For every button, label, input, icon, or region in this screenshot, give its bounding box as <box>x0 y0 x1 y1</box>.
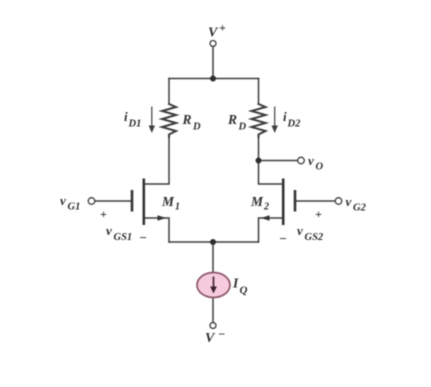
node V+ terminal <box>210 41 216 47</box>
svg-text:i: i <box>283 109 287 124</box>
svg-text:M: M <box>161 194 175 209</box>
wire gate M1 <box>95 200 132 202</box>
resistor RD right <box>252 104 266 137</box>
svg-text:−: − <box>279 231 287 246</box>
svg-text:D: D <box>192 122 201 133</box>
svg-text:GS2: GS2 <box>305 232 324 243</box>
svg-text:+: + <box>100 207 107 221</box>
node vG2 terminal <box>335 198 342 205</box>
svg-text:+: + <box>219 21 226 35</box>
svg-text:G1: G1 <box>68 202 81 213</box>
wire node vO to M2 drain <box>259 161 284 185</box>
svg-text:G2: G2 <box>353 203 367 214</box>
transistor M2 <box>283 179 295 226</box>
svg-text:2: 2 <box>263 202 269 213</box>
wire V+ to top rail <box>212 47 214 79</box>
current arrow iD2 <box>272 107 278 134</box>
svg-text:v: v <box>297 223 303 238</box>
svg-text:i: i <box>124 109 128 124</box>
junction dot node vO <box>256 158 262 164</box>
wire current source to V- terminal <box>212 297 214 323</box>
svg-text:D2: D2 <box>287 119 302 130</box>
current arrow iD1 <box>149 107 155 134</box>
wire node vO to output terminal <box>259 160 298 162</box>
svg-text:D: D <box>238 122 247 133</box>
wire M1 source to common node <box>144 218 169 242</box>
svg-text:V: V <box>208 26 219 41</box>
wire resistor to node vO <box>258 137 260 161</box>
svg-text:Q: Q <box>240 285 248 297</box>
transistor M1 <box>132 179 144 226</box>
wire top rail <box>169 78 259 80</box>
svg-text:v: v <box>308 153 314 168</box>
svg-text:1: 1 <box>175 202 180 213</box>
svg-text:GS1: GS1 <box>114 232 133 243</box>
resistor RD left <box>162 104 176 137</box>
svg-text:O: O <box>316 162 324 173</box>
arrow M2 source <box>261 215 270 220</box>
wire gate M2 <box>295 200 335 202</box>
node V- terminal <box>210 323 216 329</box>
svg-text:R: R <box>182 112 192 127</box>
svg-text:v: v <box>60 193 66 208</box>
wire M2 source to common node <box>259 218 284 242</box>
arrow M1 source <box>158 215 167 220</box>
junction dot top rail <box>210 76 216 82</box>
svg-text:+: + <box>315 207 322 221</box>
wire right branch to resistor <box>258 79 260 105</box>
svg-text:M: M <box>250 194 264 209</box>
svg-text:v: v <box>106 223 112 238</box>
svg-text:−: − <box>218 327 225 341</box>
wire common source rail <box>169 241 259 243</box>
svg-text:R: R <box>227 112 237 127</box>
node vG1 terminal <box>88 198 95 205</box>
wire resistor to M1 drain <box>144 137 169 184</box>
svg-text:I: I <box>232 276 239 291</box>
current source IQ <box>197 273 230 298</box>
junction dot common source <box>210 239 216 245</box>
svg-text:−: − <box>139 230 147 245</box>
svg-text:V: V <box>205 331 216 346</box>
svg-text:v: v <box>346 194 352 209</box>
wire common node to current source <box>212 242 214 273</box>
wire left branch to resistor <box>168 79 170 105</box>
svg-text:D1: D1 <box>128 119 142 130</box>
node vO terminal <box>298 157 305 164</box>
